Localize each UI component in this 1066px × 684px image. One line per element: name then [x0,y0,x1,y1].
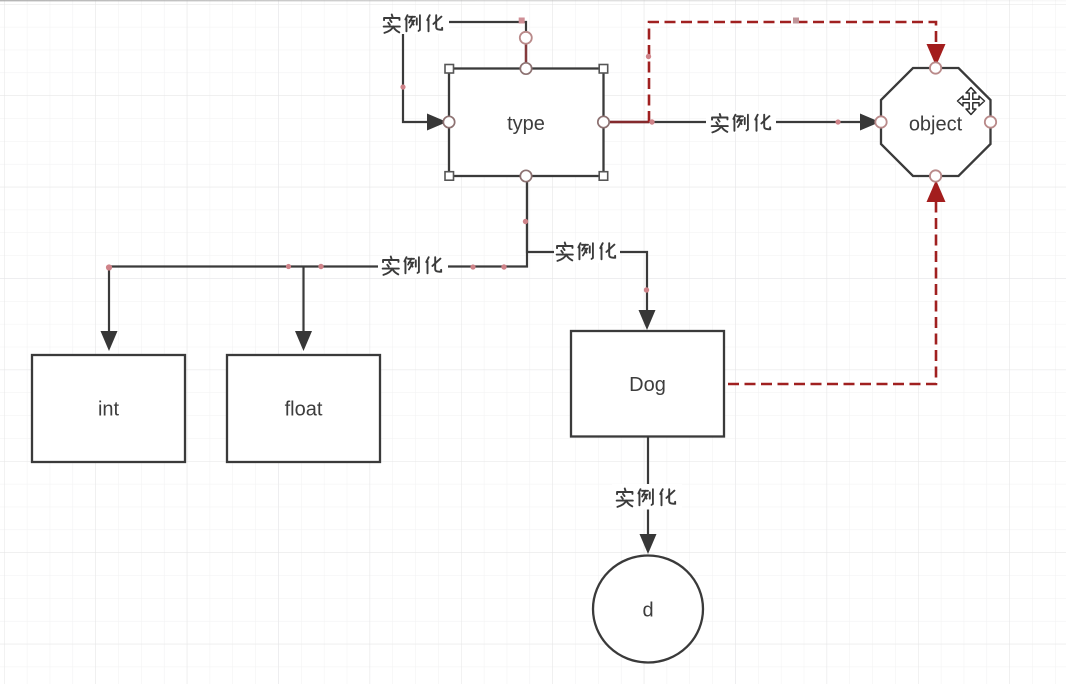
arrowhead into int.top [101,331,118,351]
wire type.bottom -> int.top [109,176,527,331]
label 实例化 on type->object [706,111,776,133]
red arrowhead into object.bottom [927,180,946,202]
node int box [32,355,185,462]
svg-text:float: float [285,399,323,421]
wire loop edge: type.top up-left-down into type.left [403,22,526,122]
connection point circles on object octagon [875,62,996,181]
node type box [449,69,604,177]
red dashed edge type.right -> object.top [649,22,936,122]
node object octagon [881,68,991,176]
arrowhead into object.left [860,114,880,131]
red arrowhead into object.top [927,44,946,66]
node Dog box [571,331,724,437]
floating endpoint handle above type [520,32,532,44]
node float box [227,355,380,462]
node d circle [593,556,703,663]
arrowhead into Dog.top [639,310,656,330]
wire branch -> float.top [302,267,304,332]
label 实例化 on type->Dog [554,241,620,263]
svg-text:Dog: Dog [629,374,666,396]
arrowhead into circle d [640,534,657,554]
svg-text:type: type [507,113,545,135]
wire Dog.bottom -> circle d [647,437,649,534]
selection handles on type: corner squares [445,65,608,181]
selection handles on type: edge midpoint circles [443,63,609,182]
wire type.bottom -> Dog.top [527,176,647,310]
svg-text:object: object [909,114,963,136]
arrowhead into type.left [427,114,447,131]
label 实例化 on Dog->d [612,484,682,510]
arrowhead into float.top [295,331,312,351]
label 实例化 top-left [381,12,449,34]
wire type.right to object.left (solid 实例化 edge) [604,121,876,123]
maroon overlap segment below floating handle [525,38,527,68]
move cursor icon [958,88,985,115]
svg-text:int: int [98,399,120,421]
svg-text:d: d [642,600,653,622]
label 实例化 on type->int [378,256,448,278]
waypoint dot [106,18,841,293]
maroon overlap segment type.right start of red edge [604,121,649,123]
red dashed edge Dog.right -> object.bottom [728,201,936,384]
